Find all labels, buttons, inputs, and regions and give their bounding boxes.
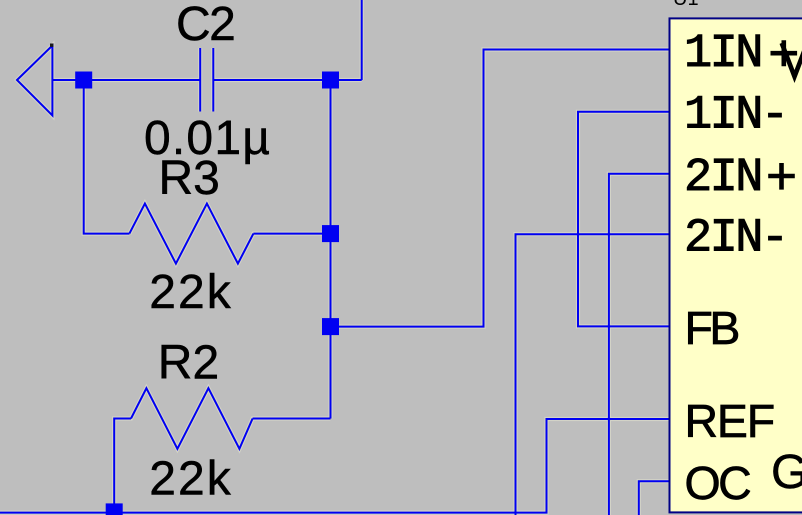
svg-text:OC: OC: [685, 457, 751, 509]
svg-text:1IN: 1IN: [684, 28, 761, 81]
svg-text:R2: R2: [158, 336, 219, 389]
wire R2 left lead: [114, 419, 131, 513]
vertical bus wire: [330, 80, 332, 419]
op-amp IC U1 box: [670, 18, 802, 512]
port corner dot: [50, 44, 53, 47]
junction at FB tap node: [322, 318, 339, 335]
svg-text:1IN-: 1IN-: [684, 90, 786, 143]
junction at R3 right node: [322, 225, 339, 242]
wire R3 right lead: [253, 233, 330, 235]
wire OC down: [639, 481, 669, 515]
wire C2 right to top net: [213, 79, 361, 81]
junction at C2 output node: [322, 72, 339, 89]
resistor R3: [129, 204, 253, 264]
svg-text:R3: R3: [159, 152, 220, 205]
input port arrow: [17, 46, 52, 116]
wire 2IN- down: [516, 234, 670, 515]
svg-text:U1: U1: [673, 0, 699, 10]
wire 2IN+ down: [609, 174, 669, 515]
wire FB to 1IN-: [578, 112, 669, 327]
plus of 2IN+: [768, 163, 795, 190]
wire R2 right lead: [253, 418, 331, 420]
svg-text:C2: C2: [176, 0, 234, 51]
resistor R2: [131, 388, 253, 449]
svg-text:REF: REF: [685, 395, 774, 447]
wire left branch down: [84, 80, 130, 234]
junction at port node: [75, 72, 92, 89]
junction at ground rail: [106, 503, 123, 515]
plus of 1IN+: [771, 40, 798, 66]
wire from port through C2 node: [52, 79, 200, 81]
wire to top edge: [361, 0, 363, 80]
pin VCC partial V: [782, 43, 802, 77]
wire REF to ground rail: [0, 419, 669, 513]
wire FB tap to 1IN+: [331, 50, 670, 327]
svg-text:G: G: [771, 446, 802, 499]
svg-text:2IN: 2IN: [684, 152, 761, 205]
svg-text:FB: FB: [685, 302, 739, 354]
capacitor C2: [200, 48, 213, 112]
svg-text:22k: 22k: [149, 453, 232, 506]
svg-text:22k: 22k: [149, 266, 232, 319]
svg-text:2IN-: 2IN-: [684, 213, 786, 266]
